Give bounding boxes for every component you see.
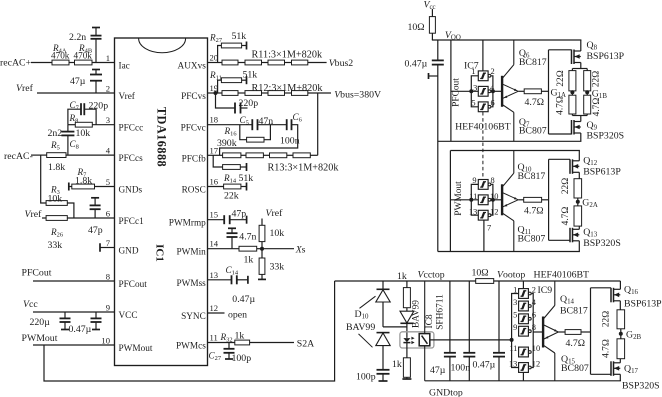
svg-text:PFCout: PFCout <box>452 78 462 107</box>
svg-text:BAV99: BAV99 <box>346 322 375 333</box>
wire C5 to C6 <box>258 124 286 126</box>
svg-text:PWMcs: PWMcs <box>176 342 206 352</box>
capacitor 0.47u pin9 <box>95 312 97 318</box>
svg-text:47p: 47p <box>232 209 247 220</box>
resistor 4.7ohm driver2 <box>524 197 542 202</box>
svg-text:5: 5 <box>513 311 517 320</box>
wire R4B to pin1 <box>92 62 115 64</box>
transistor Q9 BSP320S <box>571 120 573 135</box>
wire node to Xs label <box>264 248 294 250</box>
resistor 22ohm s1 left <box>569 71 576 91</box>
inverter IC7b <box>478 86 488 96</box>
label SFH6711 rotated <box>436 294 446 330</box>
pointer line D10 upper <box>360 296 376 308</box>
svg-text:HEF40106BT: HEF40106BT <box>534 270 590 281</box>
inverter IC9b <box>519 301 529 311</box>
wire pin11 row <box>208 342 235 344</box>
resistor string R12 d <box>292 91 308 96</box>
svg-text:2: 2 <box>491 67 495 76</box>
terminal stub Voo cap <box>429 75 438 77</box>
terminal bar 47p pin15 <box>246 216 248 224</box>
rail Vcctop <box>335 280 476 282</box>
capacitor C6 <box>286 119 288 130</box>
svg-text:SFH6711: SFH6711 <box>436 294 446 330</box>
resistor 22k <box>224 184 241 189</box>
wire R11b right <box>242 79 247 81</box>
wire IC7d output to base <box>493 199 501 201</box>
wire R11b drop <box>218 80 222 93</box>
diode D10 lower <box>377 332 390 334</box>
inverter IC9f <box>519 363 529 373</box>
svg-text:Vbus2: Vbus2 <box>329 58 354 69</box>
inverter IC9a <box>519 289 529 299</box>
svg-text:PFCfb: PFCfb <box>182 154 207 164</box>
wire R12 cd <box>285 92 292 94</box>
wire R11 ab <box>238 62 245 64</box>
label 4.7ohm s1R <box>592 98 602 117</box>
resistor 33k vertical <box>261 249 263 258</box>
svg-text:IC1: IC1 <box>154 244 166 262</box>
IC U1 TDA16888 body <box>115 38 208 366</box>
wire R8 to pin3 <box>92 124 114 126</box>
resistor 1k top branch <box>406 281 408 288</box>
node dot IC7 output <box>491 89 495 93</box>
wire Q12 drain to 22ohm <box>578 172 580 178</box>
terminal bar pin7 <box>99 243 101 252</box>
svg-text:4.7Ω: 4.7Ω <box>592 98 602 117</box>
node dot IC7d input <box>469 198 473 202</box>
wire R12 bc <box>262 92 269 94</box>
svg-text:11: 11 <box>210 333 218 343</box>
svg-text:10Ω: 10Ω <box>472 268 489 279</box>
wire R13 to Vbus vertical <box>310 154 317 156</box>
resistor R14 51k <box>213 155 222 167</box>
svg-text:Vref: Vref <box>25 209 43 220</box>
svg-text:13: 13 <box>210 270 219 280</box>
svg-text:12: 12 <box>490 208 498 217</box>
wire 4.7ohm s2 to Q13 <box>578 226 580 229</box>
wire IC7 supply stub <box>482 40 484 71</box>
IC1 label IC1 <box>154 244 166 262</box>
capacitor 100p bottom <box>377 369 390 371</box>
wire R3 to pin6 wire <box>67 203 74 218</box>
resistor string R13 d <box>293 153 310 158</box>
wire 1k to node Xs <box>257 248 264 250</box>
inverter IC7a <box>478 71 488 81</box>
wire IC9 supply stub <box>522 281 524 289</box>
wire pin16 row <box>208 186 224 188</box>
terminal bar 22k <box>246 183 248 191</box>
wire IC7 pin7 stub <box>483 221 485 252</box>
wire C6 to PFCfb rail <box>220 125 298 156</box>
wire pin18 row <box>208 124 252 126</box>
resistor string R11 a <box>222 60 238 65</box>
svg-text:1: 1 <box>471 67 475 76</box>
resistor R4B <box>75 60 93 65</box>
wire recAC+ to R4A <box>31 62 52 64</box>
wire C14 right <box>237 279 248 281</box>
svg-text:R11:3×1M+820k: R11:3×1M+820k <box>252 50 323 61</box>
wire Q6Q7 out to 4.7ohm <box>518 90 524 92</box>
wire Q10Q11 out to 4.7ohm <box>518 199 524 201</box>
svg-text:470k: 470k <box>74 50 93 60</box>
wire PFCout to pin8 <box>33 280 115 282</box>
svg-text:BC807: BC807 <box>518 234 546 245</box>
rail Vootop <box>494 280 621 282</box>
wire 4.7ohm to gate frame s2 <box>542 199 549 201</box>
frame driver2 left <box>449 151 451 252</box>
svg-text:51k: 51k <box>239 173 254 184</box>
wire R12 to Vbus <box>308 92 331 94</box>
svg-text:Vcc: Vcc <box>23 299 38 310</box>
resistor 1k bottom branch <box>403 358 410 378</box>
svg-text:9: 9 <box>106 303 110 313</box>
wire opto output <box>430 339 512 341</box>
svg-text:7: 7 <box>106 238 111 248</box>
inverter IC9d <box>519 326 529 336</box>
capacitor 220u <box>64 312 66 318</box>
svg-text:22Ω: 22Ω <box>556 70 566 86</box>
svg-text:BSP320S: BSP320S <box>587 131 625 142</box>
svg-text:BC817: BC817 <box>519 57 547 68</box>
wire Vcc to 10ohm <box>431 9 433 17</box>
svg-text:220p: 220p <box>89 101 109 112</box>
label 22ohm s1R <box>592 71 602 87</box>
resistor 22ohm s1 right <box>584 71 591 91</box>
rail driver2 top <box>450 150 580 152</box>
svg-text:4.7Ω: 4.7Ω <box>524 206 544 217</box>
svg-text:7: 7 <box>487 224 491 233</box>
wire recAC- branch down <box>41 155 46 203</box>
capacitor 100n top <box>468 281 470 353</box>
wire 4.7ohm to gate frame <box>541 90 548 92</box>
svg-text:1: 1 <box>106 53 110 63</box>
wire recAC- to R5 <box>31 154 47 156</box>
svg-text:15: 15 <box>210 210 219 220</box>
resistor R7 <box>72 184 95 189</box>
transistor Q14 Q15 pair <box>542 317 544 347</box>
wire pin15 row <box>208 219 224 221</box>
wire Q14Q15 out to 4.7ohm <box>558 331 565 333</box>
wire R13 ab <box>241 154 246 156</box>
svg-text:BC807: BC807 <box>561 363 589 374</box>
svg-text:PWMin: PWMin <box>177 248 207 258</box>
terminal bar R27 <box>246 42 248 50</box>
svg-text:10k: 10k <box>270 228 285 239</box>
wire Q12 gate stub <box>549 158 570 160</box>
svg-text:Vref: Vref <box>266 208 284 219</box>
inverter IC7e <box>478 195 488 205</box>
frame driver1 left <box>450 40 452 141</box>
resistor R5 <box>47 153 66 158</box>
svg-text:BSP613P: BSP613P <box>624 299 662 310</box>
svg-text:4.7Ω: 4.7Ω <box>556 96 566 115</box>
opto LED <box>406 333 408 338</box>
svg-text:PWMrmp: PWMrmp <box>169 219 206 229</box>
svg-text:22Ω: 22Ω <box>601 311 611 327</box>
rail driver1 bottom <box>438 140 582 142</box>
resistor 22ohm s3 <box>617 310 625 329</box>
node dot pin19 <box>214 91 218 95</box>
svg-text:PFCout: PFCout <box>119 280 148 290</box>
svg-text:8: 8 <box>532 323 536 332</box>
wire bar to Q9 drain <box>580 116 582 122</box>
svg-text:220p: 220p <box>239 98 259 109</box>
wire PWMout feed to top-side driver <box>44 281 335 381</box>
wire IC7 output to Q6Q7 base <box>493 90 501 92</box>
node dot IC7 input <box>469 89 473 93</box>
svg-text:Vbus=380V: Vbus=380V <box>334 90 381 101</box>
label 4.7ohm s2 <box>561 207 571 226</box>
svg-text:9: 9 <box>472 176 476 185</box>
wire gate frame driver2 <box>548 159 550 240</box>
capacitor C8 2n2 <box>67 125 69 132</box>
svg-text:1k: 1k <box>397 271 407 282</box>
svg-text:S2A: S2A <box>297 339 314 350</box>
terminal bar R11b <box>246 76 248 84</box>
capacitor 47p pin6 <box>91 197 99 199</box>
svg-text:recAC-: recAC- <box>4 151 33 162</box>
svg-text:1k: 1k <box>244 255 254 266</box>
label 22ohm s2 <box>561 178 571 194</box>
wire Vbus to R13 string <box>317 93 319 155</box>
label PFCout rotated <box>452 78 462 107</box>
resistor string R12 c <box>268 91 285 96</box>
svg-text:PFCc1: PFCc1 <box>119 217 145 227</box>
wire driver2 input <box>450 199 478 201</box>
svg-text:47µ: 47µ <box>430 365 446 376</box>
resistor string R13 b <box>246 153 263 158</box>
svg-text:12: 12 <box>210 303 219 313</box>
wire IC7a output bracket <box>491 76 493 107</box>
svg-text:5: 5 <box>106 177 110 187</box>
wire 47p right <box>230 219 246 221</box>
wire IC7d output bracket <box>491 184 493 215</box>
resistor R26 <box>46 216 67 221</box>
wire Q9 gate stub <box>549 133 572 135</box>
transistor Q8 BSP613P <box>580 40 582 51</box>
svg-text:2: 2 <box>106 84 110 94</box>
resistor R32 1k <box>235 340 250 345</box>
resistor string R12 b <box>245 91 262 96</box>
svg-text:TDA16888: TDA16888 <box>155 107 169 167</box>
svg-text:100p: 100p <box>232 353 252 364</box>
svg-text:BC817: BC817 <box>518 171 546 182</box>
capacitor C27 100p <box>228 343 230 349</box>
resistor string R13 a <box>223 153 241 158</box>
resistor 4.7ohm driver3 <box>565 330 581 335</box>
svg-text:Vref: Vref <box>119 92 136 102</box>
wire Q17 gate stub <box>591 373 612 375</box>
inverter IC9c <box>519 314 529 324</box>
wire gate frame driver3 <box>590 288 592 375</box>
svg-text:ROSC: ROSC <box>182 186 206 196</box>
rail driver2 bottom <box>438 251 580 253</box>
diode D10 upper <box>382 281 384 290</box>
svg-text:4.7Ω: 4.7Ω <box>566 338 586 349</box>
svg-text:6: 6 <box>532 311 536 320</box>
terminal bar R14 <box>246 163 248 171</box>
inverter IC7c <box>478 102 488 112</box>
svg-text:22Ω: 22Ω <box>561 178 571 194</box>
svg-text:4.7n: 4.7n <box>239 232 256 243</box>
inverter IC7f <box>478 210 488 220</box>
label 4.7ohm s1L <box>556 96 566 115</box>
capacitor 0.47u top <box>498 281 500 353</box>
node dot G1B <box>585 90 589 94</box>
svg-text:BC817: BC817 <box>560 306 588 317</box>
svg-text:PFCout: PFCout <box>22 268 52 279</box>
svg-text:R13:3×1M+820k: R13:3×1M+820k <box>268 163 340 174</box>
terminal bar C14 <box>247 276 249 284</box>
wire R7 left <box>69 186 72 188</box>
svg-text:1k: 1k <box>392 359 402 370</box>
svg-text:8: 8 <box>106 272 110 282</box>
transistor Q16 BSP613P <box>619 281 621 289</box>
svg-text:SYNC: SYNC <box>181 312 206 322</box>
svg-text:R12:3×1M+820k: R12:3×1M+820k <box>252 83 324 94</box>
rail GNDtop <box>425 380 621 382</box>
svg-text:51k: 51k <box>232 31 247 42</box>
svg-text:8: 8 <box>491 176 495 185</box>
svg-text:open: open <box>228 310 247 321</box>
diode BAV99 branch <box>406 308 408 311</box>
node dot IC9 input <box>510 338 514 342</box>
node dot G2B <box>619 332 623 336</box>
svg-text:1.8k: 1.8k <box>48 162 65 173</box>
resistor 4.7ohm s2 <box>574 206 582 226</box>
wire 4.7ohm s3 to Q17 <box>619 359 621 363</box>
svg-text:33k: 33k <box>270 262 285 273</box>
wire R11 bc <box>262 62 269 64</box>
transistor Q12 BSP613P <box>578 151 580 161</box>
svg-text:9: 9 <box>513 323 517 332</box>
resistor 4.7ohm s3 <box>617 339 625 359</box>
svg-text:16: 16 <box>210 177 219 187</box>
svg-text:1k: 1k <box>235 331 245 342</box>
svg-text:2.2n: 2.2n <box>69 32 86 43</box>
wire R13 bc <box>263 154 269 156</box>
label PWMout rotated <box>454 181 464 216</box>
wire Q13 gate stub <box>549 239 570 241</box>
IC1 label TDA16888 <box>155 107 169 167</box>
wire R4A-R4B <box>69 62 75 64</box>
resistor 1k pin14 <box>239 246 257 251</box>
wire R32 to S2A <box>250 342 294 344</box>
svg-text:33k: 33k <box>48 240 63 251</box>
wire R27 right <box>242 45 247 47</box>
svg-text:BSP613P: BSP613P <box>583 167 621 178</box>
wire IC7d input bracket <box>471 184 478 215</box>
svg-text:Xs: Xs <box>295 245 306 256</box>
svg-text:10: 10 <box>101 336 110 346</box>
resistor R16 390k bypass <box>240 125 247 140</box>
wire pin14 row <box>208 248 240 250</box>
svg-text:PWMout: PWMout <box>119 344 153 354</box>
resistor string R13 c <box>270 153 287 158</box>
capacitor C7 loop <box>68 109 81 125</box>
svg-text:recAC+: recAC+ <box>0 58 32 69</box>
wire pin13 row <box>208 279 232 281</box>
svg-text:BC807: BC807 <box>519 126 547 137</box>
resistor 10ohm top <box>476 279 494 284</box>
wire pin19 row <box>208 92 223 94</box>
svg-text:BSP320S: BSP320S <box>622 381 660 392</box>
dashed link IC7 sections <box>482 112 484 179</box>
opto detector <box>419 334 430 346</box>
svg-text:100n: 100n <box>280 136 300 147</box>
resistor 10k vertical <box>261 242 263 249</box>
wire 22ohm to G2B <box>620 329 622 339</box>
svg-text:3: 3 <box>513 298 517 307</box>
svg-text:470k: 470k <box>51 50 70 60</box>
svg-text:47p: 47p <box>88 225 103 236</box>
wire Q16 gate stub <box>591 287 612 289</box>
svg-text:20: 20 <box>210 53 219 63</box>
svg-text:VCC: VCC <box>119 311 138 321</box>
capacitor 47u top <box>449 281 451 353</box>
capacitor 0.47u Voo <box>437 40 439 60</box>
svg-text:0.47µ: 0.47µ <box>69 324 92 335</box>
svg-text:0.47µ: 0.47µ <box>473 360 496 371</box>
svg-text:11: 11 <box>509 344 517 353</box>
svg-text:PFCvc: PFCvc <box>181 124 206 134</box>
wire Q8 drain to bar <box>580 63 582 69</box>
svg-text:PWMout: PWMout <box>22 333 58 344</box>
wire pin17 row <box>208 154 223 156</box>
svg-text:1.8k: 1.8k <box>75 176 92 187</box>
node dot IC7d output <box>491 198 495 202</box>
wire gate network top bar s1 <box>572 68 587 70</box>
optocoupler IC8 outline <box>400 332 434 348</box>
wire R11 cd <box>285 62 292 64</box>
svg-text:2n2: 2n2 <box>48 128 63 139</box>
svg-text:Iac: Iac <box>119 62 130 72</box>
wire Q8 gate stub <box>549 49 572 51</box>
transistor Q13 BSP320S <box>569 228 571 243</box>
svg-text:4: 4 <box>106 146 111 156</box>
wire Vcc to pin9 <box>33 311 115 313</box>
svg-text:4.7Ω: 4.7Ω <box>561 207 571 226</box>
svg-text:GNDtop: GNDtop <box>429 388 463 397</box>
wire R7 to pin5 <box>95 186 115 188</box>
capacitor 220p pin19 <box>216 93 235 108</box>
resistor 4.7ohm s1 right <box>584 95 591 114</box>
wire pin7 stub <box>100 247 115 249</box>
transistor Q6 Q7 pair <box>501 76 503 106</box>
inverter IC9e <box>519 347 529 357</box>
svg-text:PFCcc: PFCcc <box>119 124 144 134</box>
svg-text:390k: 390k <box>217 138 237 149</box>
wire R11 to Vbus2 <box>308 62 327 64</box>
node dot G1A <box>570 90 574 94</box>
svg-text:BSP320S: BSP320S <box>583 238 621 249</box>
resistor 4.7ohm s1 left <box>569 95 576 114</box>
svg-text:PFCcs: PFCcs <box>119 154 144 164</box>
wire IC9 input bracket <box>512 294 519 368</box>
wire gate network bottom bar s1 <box>572 115 587 117</box>
svg-text:22Ω: 22Ω <box>592 71 602 87</box>
resistor 10ohm Vcc <box>429 17 435 34</box>
transistor Q10 Q11 pair <box>501 185 503 215</box>
svg-text:Vootop: Vootop <box>497 270 525 281</box>
resistor string R11 d <box>292 60 308 65</box>
capacitor C14 <box>231 275 233 284</box>
svg-text:220µ: 220µ <box>30 317 51 328</box>
svg-text:Vref: Vref <box>16 83 34 94</box>
svg-text:PWMss: PWMss <box>176 279 206 289</box>
svg-text:22k: 22k <box>224 191 239 202</box>
